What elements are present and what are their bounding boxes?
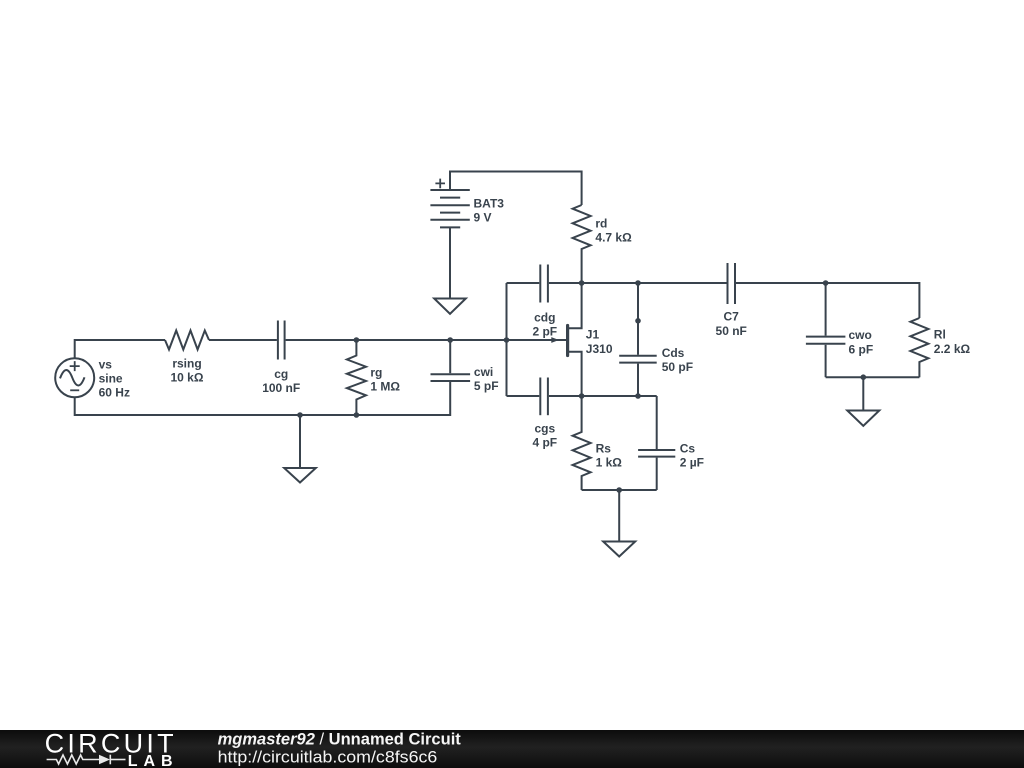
logo resistor-diode symbol [47, 755, 126, 765]
label cwi 5 pF [474, 365, 499, 393]
svg-text:2.2 kΩ: 2.2 kΩ [934, 342, 971, 356]
node ground stem [297, 412, 303, 418]
svg-text:1 kΩ: 1 kΩ [596, 456, 623, 470]
capacitor cwi [431, 340, 471, 381]
wire rsing to cg [209, 339, 277, 341]
svg-text:mgmaster92 / Unnamed Circuit: mgmaster92 / Unnamed Circuit [218, 730, 462, 749]
wire bottom rail [75, 382, 451, 415]
label J1 J310 [586, 328, 613, 356]
svg-text:sine: sine [99, 372, 123, 386]
wire cgs left [507, 395, 540, 397]
resistor rd [573, 205, 591, 283]
svg-text:LAB: LAB [128, 753, 179, 768]
voltage source vs [55, 358, 94, 397]
label Rl 2.2 kOhm [934, 327, 971, 356]
svg-text:cdg: cdg [534, 311, 555, 325]
svg-text:2 µF: 2 µF [680, 456, 704, 470]
svg-text:6 pF: 6 pF [849, 343, 874, 357]
label cwo 6 pF [849, 328, 874, 356]
svg-text:100 nF: 100 nF [262, 381, 300, 395]
label vs sine 60 Hz [99, 357, 130, 399]
wire Cds branch upper [637, 283, 639, 321]
svg-text:Rl: Rl [934, 327, 946, 341]
label C7 50 nF [716, 310, 747, 338]
node gate branch [504, 337, 510, 343]
svg-text:http://circuitlab.com/c8fs6c6: http://circuitlab.com/c8fs6c6 [218, 748, 438, 767]
wire battery to ground [449, 227, 451, 298]
wire output bottom [826, 376, 920, 378]
node rg top [354, 337, 360, 343]
wire C7 to output [736, 283, 919, 318]
ground left [284, 415, 316, 483]
svg-text:4 pF: 4 pF [532, 436, 557, 450]
label cdg 2 pF [532, 311, 557, 339]
svg-text:cgs: cgs [534, 422, 555, 436]
node cwi top [447, 337, 453, 343]
svg-text:rsing: rsing [172, 357, 201, 371]
svg-text:J1: J1 [586, 328, 600, 342]
wire cdg left [507, 282, 540, 284]
svg-text:50 pF: 50 pF [662, 360, 693, 374]
svg-text:cg: cg [274, 367, 288, 381]
svg-text:10 kΩ: 10 kΩ [171, 371, 204, 385]
node Cds joint [635, 318, 641, 324]
node source ground [616, 487, 622, 493]
node drain [579, 280, 585, 286]
svg-text:cwo: cwo [849, 328, 872, 342]
capacitor Cs [638, 396, 675, 490]
label cgs 4 pF [532, 422, 557, 450]
node output ground [861, 374, 867, 380]
svg-text:Cs: Cs [680, 442, 696, 456]
wire drain rail to C7 [582, 282, 727, 284]
footer bar [0, 730, 1024, 768]
wire branch vertical cdg-cgs [506, 283, 508, 396]
svg-text:cwi: cwi [474, 365, 493, 379]
node rg bottom [354, 412, 360, 418]
svg-text:Cds: Cds [662, 346, 685, 360]
capacitor cgs [540, 378, 548, 416]
wire cgs right / source rail [549, 395, 657, 397]
label rg 1 MOhm [370, 366, 400, 394]
label Cs 2 uF [680, 442, 704, 470]
resistor rsing [165, 331, 209, 350]
svg-text:rg: rg [370, 366, 382, 380]
resistor rg [347, 340, 366, 415]
wire cdg right to drain column [549, 282, 582, 284]
svg-text:1 MΩ: 1 MΩ [370, 380, 400, 394]
svg-text:4.7 kΩ: 4.7 kΩ [595, 231, 632, 245]
svg-text:9 V: 9 V [474, 211, 492, 225]
wire Rs Cs bottom [582, 489, 657, 491]
svg-text:rd: rd [595, 217, 607, 231]
capacitor C7 [728, 263, 736, 304]
svg-text:50 nF: 50 nF [716, 324, 747, 338]
transistor J1 JFET [551, 283, 581, 396]
svg-text:J310: J310 [586, 342, 613, 356]
label rd 4.7 kOhm [595, 217, 632, 245]
wire vs top to rsing [75, 340, 165, 358]
svg-text:Rs: Rs [596, 442, 612, 456]
svg-text:5 pF: 5 pF [474, 379, 499, 393]
capacitor cdg [540, 265, 548, 303]
node source [579, 393, 585, 399]
node Cds top branch [635, 280, 641, 286]
label Rs 1 kOhm [596, 442, 623, 470]
svg-text:2 pF: 2 pF [532, 325, 557, 339]
ground output [847, 377, 879, 426]
resistor Rl [910, 318, 928, 377]
node cwo top [823, 280, 829, 286]
label BAT3 9 V [474, 197, 505, 225]
svg-text:60 Hz: 60 Hz [99, 386, 130, 400]
svg-text:BAT3: BAT3 [474, 197, 505, 211]
capacitor cg [278, 321, 285, 360]
wire cg to JFET gate [286, 339, 567, 341]
label cg 100 nF [262, 367, 300, 395]
svg-text:vs: vs [99, 357, 113, 371]
label rsing 10 kOhm [171, 357, 204, 385]
svg-text:C7: C7 [724, 310, 740, 324]
resistor Rs [573, 396, 591, 490]
battery BAT3 [430, 179, 469, 228]
capacitor Cds [619, 321, 657, 396]
capacitor cwo [806, 283, 846, 377]
label Cds 50 pF [662, 346, 693, 374]
ground battery [434, 299, 466, 314]
node Cds bottom [635, 393, 641, 399]
ground source [603, 490, 635, 557]
wire battery top rail [450, 172, 582, 206]
